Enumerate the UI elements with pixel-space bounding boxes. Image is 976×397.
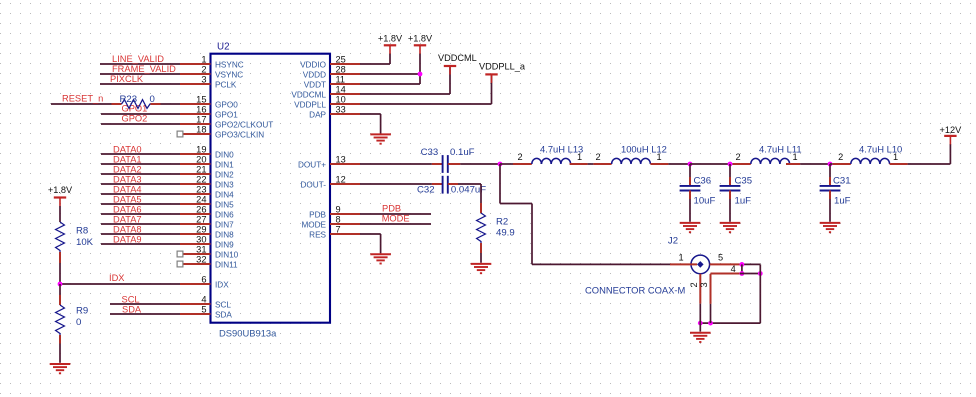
pin 33 (DAP) (309, 104, 360, 119)
svg-text:RES: RES (309, 230, 326, 239)
svg-text:1: 1 (577, 152, 582, 162)
capacitor C33 pin 1 (432, 163, 443, 165)
node C31 (828, 162, 833, 167)
power VDDCML (438, 53, 477, 75)
pin 5 (SDA) (180, 304, 232, 319)
svg-text:25: 25 (336, 54, 346, 64)
svg-text:8: 8 (336, 214, 341, 224)
svg-text:VDDCML: VDDCML (438, 53, 477, 63)
node loop corner (758, 271, 763, 276)
pin 9 (PDB) (309, 204, 360, 219)
wire jog horizontal (500, 203, 532, 205)
no-connect square pin 18 (177, 131, 183, 137)
svg-text:C36: C36 (694, 175, 712, 186)
svg-text:VDDPLL: VDDPLL (294, 100, 326, 109)
node pin5 tie (740, 262, 745, 267)
svg-text:DIN0: DIN0 (215, 150, 234, 159)
svg-text:13: 13 (336, 154, 346, 164)
svg-text:33: 33 (336, 104, 346, 114)
pin 32 (DIN11) (183, 254, 238, 269)
svg-text:10: 10 (336, 94, 346, 104)
pin 11 (VDDT) (304, 74, 360, 89)
svg-text:VSYNC: VSYNC (215, 70, 243, 79)
node IDX junction (58, 282, 63, 287)
wire net DATA1 (101, 154, 180, 164)
op-amp U1 equivalent: IC U2 DS90UB913a body (211, 42, 331, 339)
svg-text:PDB: PDB (382, 204, 401, 214)
svg-text:R9: R9 (76, 306, 88, 317)
wire VDDCML vertical (449, 66, 451, 94)
svg-text:SCL: SCL (215, 300, 231, 309)
wire net RESET_n (51, 94, 112, 105)
inductor L12 pin 1 (650, 163, 668, 165)
svg-text:+1.8V: +1.8V (408, 33, 433, 43)
wire C36 node to C35 node (690, 163, 733, 165)
wire C31 top (829, 164, 831, 177)
svg-text:C31: C31 (833, 175, 851, 186)
svg-text:30: 30 (196, 234, 206, 244)
pin 29 (DIN8) (180, 224, 234, 239)
svg-text:GPO1: GPO1 (122, 104, 148, 114)
capacitor C33 0.1uF (421, 147, 475, 173)
svg-text:GPO1: GPO1 (215, 110, 238, 119)
node VDDD/+1.8V junction (418, 72, 423, 77)
svg-text:U2: U2 (217, 42, 230, 53)
pin 14 (VDDCML) (291, 84, 360, 99)
ground (RES) (370, 254, 391, 263)
svg-text:DATA6: DATA6 (113, 204, 142, 214)
svg-text:10K: 10K (76, 237, 94, 248)
wire +12V vertical (949, 144, 951, 164)
pin 1 (HSYNC) (180, 54, 244, 69)
wire pin3 lower (710, 304, 712, 323)
power VDDPLL_a (479, 61, 526, 83)
svg-text:3: 3 (201, 74, 206, 84)
svg-text:31: 31 (196, 244, 206, 254)
ground (C36) (680, 223, 701, 232)
svg-text:17: 17 (196, 114, 206, 124)
wire VDDD to junction (360, 73, 420, 75)
wire C33 to junction (460, 163, 500, 165)
svg-text:24: 24 (196, 194, 206, 204)
connector J2 CONNECTOR COAX-M body (585, 236, 710, 296)
pin 27 (DIN7) (180, 214, 234, 229)
svg-text:GPO3/CLKIN: GPO3/CLKIN (215, 130, 264, 139)
capacitor C35 pin 2 (729, 191, 731, 200)
svg-text:DOUT+: DOUT+ (298, 160, 326, 169)
wire +1.8V to R8 (59, 206, 61, 222)
wire loop right vertical (759, 264, 761, 323)
node C35 (728, 162, 733, 167)
wire VDDIO vertical (389, 54, 391, 65)
svg-text:26: 26 (196, 204, 206, 214)
svg-text:HSYNC: HSYNC (215, 60, 244, 69)
svg-text:1: 1 (201, 54, 206, 64)
wire RES horizontal (360, 233, 381, 235)
wire L13 to L12 (588, 163, 594, 165)
no-connect square pin 31 (177, 251, 183, 257)
svg-text:+12V: +12V (940, 125, 963, 135)
svg-text:PDB: PDB (309, 210, 326, 219)
resistor R23 pin 1 (112, 103, 122, 105)
inductor L12 100uH (595, 144, 666, 165)
wire net SCL (110, 294, 180, 304)
resistor R2 pin 1 (480, 203, 482, 213)
svg-text:0.1uF: 0.1uF (450, 147, 475, 158)
wire C31 node to L10 (830, 163, 833, 165)
capacitor C31 pin 1 (829, 177, 831, 186)
svg-text:C32: C32 (417, 185, 435, 196)
svg-text:1uF: 1uF (735, 195, 752, 206)
wire net DATA0 (101, 144, 180, 154)
svg-text:DIN9: DIN9 (215, 240, 234, 249)
wire VDDCML horizontal (360, 93, 450, 95)
svg-text:SDA: SDA (215, 310, 232, 319)
pin 10 (VDDPLL) (294, 94, 360, 109)
wire net DATA6 (101, 204, 180, 214)
svg-text:DIN10: DIN10 (215, 250, 239, 259)
wire VDDT vertical (419, 54, 421, 85)
svg-text:C35: C35 (735, 175, 753, 186)
wire net MODE (360, 213, 431, 224)
wire R9 to ground (59, 344, 61, 363)
wire R23 to pin15 (161, 103, 181, 105)
wire RES vertical (380, 234, 382, 253)
wire L10 to +12V corner (908, 163, 951, 165)
pin 25 (VDDIO) (300, 54, 360, 69)
wire DAP horizontal (360, 113, 381, 115)
connector J2 pin 3 number (699, 282, 709, 287)
resistor R9 0 ohm (56, 305, 89, 335)
wire junction to R9 (59, 284, 61, 295)
svg-text:DATA8: DATA8 (113, 224, 142, 234)
svg-text:SDA: SDA (122, 304, 142, 314)
svg-text:1uF: 1uF (834, 195, 851, 206)
inductor L13 pin 1 (570, 163, 588, 165)
pin 7 (RES) (309, 224, 360, 239)
connector J2 pin 2 (699, 274, 701, 304)
svg-text:DATA9: DATA9 (113, 234, 142, 244)
connector J2 pin 2 number (689, 282, 699, 287)
svg-text:2: 2 (201, 64, 206, 74)
inductor L10 4.7uH (838, 144, 902, 165)
svg-text:IDX: IDX (109, 273, 125, 283)
pin 31 (DIN10) (183, 244, 239, 259)
wire junction to L13 (500, 163, 513, 165)
resistor R23 (0 ohm) (120, 94, 155, 108)
svg-text:FRAME_VALID: FRAME_VALID (112, 64, 176, 74)
svg-text:GPO2/CLKOUT: GPO2/CLKOUT (215, 120, 273, 129)
svg-text:9: 9 (336, 204, 341, 214)
wire net IDX (60, 273, 180, 284)
pin 2 (VSYNC) (180, 64, 243, 79)
no-connect square pin 32 (177, 261, 183, 267)
pin 21 (DIN2) (180, 164, 234, 179)
pin 8 (MODE) (301, 214, 360, 229)
resistor R23 pin 2 (151, 103, 161, 105)
wire DOUT+ to C33 (360, 163, 432, 165)
svg-text:19: 19 (196, 144, 206, 154)
svg-text:49.9: 49.9 (496, 228, 515, 239)
svg-text:21: 21 (196, 164, 206, 174)
svg-text:RESET_n: RESET_n (62, 94, 103, 104)
connector J2 pin 3 (710, 274, 712, 304)
wire R2 to ground (480, 253, 482, 263)
svg-text:+1.8V: +1.8V (378, 33, 403, 43)
connector J2 pin 4 (711, 273, 741, 275)
ground (DAP) (370, 134, 391, 143)
wire VDDPLL horizontal (360, 103, 492, 105)
inductor L11 pin 2 (733, 163, 751, 165)
pin 20 (DIN1) (180, 154, 234, 169)
svg-text:20: 20 (196, 154, 206, 164)
svg-text:2: 2 (735, 152, 740, 162)
pin 22 (DIN3) (180, 174, 234, 189)
wire net FRAME_VALID (100, 64, 180, 74)
svg-text:DATA5: DATA5 (113, 194, 142, 204)
svg-text:IDX: IDX (215, 280, 229, 289)
wire net DATA5 (101, 194, 180, 204)
svg-text:LINE_VALID: LINE_VALID (112, 54, 164, 64)
power +1.8V (VDDIO) (378, 33, 403, 53)
svg-text:6: 6 (201, 274, 206, 284)
wire net DATA9 (101, 234, 180, 244)
capacitor C36 pin 2 (689, 191, 691, 200)
wire net GPO1 (101, 104, 180, 115)
wire net LINE_VALID (100, 54, 180, 64)
wire net DATA2 (101, 164, 180, 174)
wire pin2 lower (699, 304, 701, 332)
svg-text:DIN11: DIN11 (215, 260, 238, 269)
pin 24 (DIN5) (180, 194, 234, 209)
svg-text:32: 32 (196, 254, 206, 264)
resistor R2 49.9 (477, 213, 515, 243)
svg-text:MODE: MODE (301, 220, 326, 229)
wire pin4 to corner (740, 273, 760, 275)
wire DOUT- to C32 (360, 183, 432, 185)
pin 30 (DIN9) (180, 234, 234, 249)
svg-text:DIN8: DIN8 (215, 230, 234, 239)
svg-text:DATA2: DATA2 (113, 164, 142, 174)
capacitor C31 pin 2 (829, 191, 831, 200)
svg-text:R2: R2 (496, 216, 508, 227)
svg-text:1: 1 (656, 152, 661, 162)
capacitor C32 pin 1 (432, 183, 443, 185)
ground (below R9) (50, 364, 71, 373)
resistor R2 pin 2 (480, 243, 482, 253)
power +1.8V (left) (48, 185, 73, 206)
svg-text:PCLK: PCLK (215, 80, 237, 89)
svg-text:12: 12 (336, 174, 346, 184)
pin 4 (SCL) (180, 294, 231, 309)
svg-text:15: 15 (196, 94, 206, 104)
svg-text:SCL: SCL (122, 294, 140, 304)
svg-text:DIN6: DIN6 (215, 210, 234, 219)
svg-text:22: 22 (196, 174, 206, 184)
pin 6 (IDX) (180, 274, 229, 289)
inductor L10 pin 1 (890, 163, 908, 165)
wire VDDT horizontal (360, 83, 420, 85)
connector J2 pin 1 number (678, 253, 683, 263)
connector J2 pin 1 (670, 263, 697, 265)
svg-text:5: 5 (718, 253, 723, 263)
connector J2 pin 5 number (718, 253, 723, 263)
svg-text:VDDD: VDDD (303, 70, 326, 79)
resistor R9 pin 2 (59, 335, 61, 344)
svg-text:5: 5 (201, 304, 206, 314)
inductor L12 pin 2 (593, 163, 611, 165)
svg-text:4: 4 (731, 264, 736, 274)
svg-text:4: 4 (201, 294, 206, 304)
svg-text:R8: R8 (76, 226, 88, 237)
wire net PIXCLK (100, 74, 180, 84)
pin 16 (GPO1) (180, 104, 238, 119)
resistor R8 pin 2 (59, 252, 61, 263)
svg-text:7: 7 (336, 224, 341, 234)
svg-text:DAP: DAP (309, 110, 326, 119)
svg-text:14: 14 (336, 84, 346, 94)
inductor L11 4.7uH (735, 144, 801, 165)
capacitor C33 pin 2 (448, 163, 461, 165)
wire net DATA7 (101, 214, 180, 224)
wire to coax pin 1 (532, 263, 670, 265)
pin 15 (GPO0) (180, 94, 238, 109)
node pin3 bottom tie (708, 321, 713, 326)
capacitor C32 pin 2 (448, 183, 458, 185)
svg-text:16: 16 (196, 104, 206, 114)
wire net DATA3 (101, 174, 180, 184)
svg-text:DIN1: DIN1 (215, 160, 234, 169)
wire DAP vertical (380, 114, 382, 134)
pin 23 (DIN4) (180, 184, 234, 199)
power +12V (940, 125, 963, 145)
svg-text:0: 0 (76, 317, 81, 328)
capacitor C36 pin 1 (689, 177, 691, 186)
svg-text:2: 2 (689, 282, 699, 287)
svg-text:DIN7: DIN7 (215, 220, 234, 229)
svg-text:C33: C33 (421, 147, 439, 158)
svg-text:2: 2 (517, 152, 522, 162)
connector J2 pin 5 (710, 263, 740, 265)
wire net GPO2 (101, 114, 180, 125)
svg-text:VDDT: VDDT (304, 80, 326, 89)
svg-text:GPO0: GPO0 (215, 100, 238, 109)
svg-text:28: 28 (336, 64, 346, 74)
node pin2 bottom tie (698, 321, 703, 326)
wire pin5 to corner (740, 263, 761, 265)
wire R8 to IDX junction (59, 263, 61, 284)
wire C32 output (458, 183, 481, 185)
wire C36 to ground (689, 199, 691, 222)
wire net PDB (360, 204, 431, 215)
svg-text:1: 1 (792, 152, 797, 162)
wire VDDIO horizontal (360, 63, 390, 65)
connector J2 pin 4 number (731, 264, 736, 274)
svg-text:VDDPLL_a: VDDPLL_a (479, 61, 526, 71)
wire L12 to C36 node (668, 163, 690, 165)
capacitor C31 1uF (820, 175, 851, 206)
svg-text:2: 2 (838, 152, 843, 162)
power +1.8V (VDDD/VDDT) (408, 33, 433, 53)
svg-text:J2: J2 (668, 236, 678, 247)
pin 28 (VDDD) (303, 64, 360, 79)
svg-text:DIN5: DIN5 (215, 200, 234, 209)
capacitor C36 10uF (680, 175, 716, 206)
pin 19 (DIN0) (180, 144, 234, 159)
svg-text:18: 18 (196, 124, 206, 134)
wire VDDPLL vertical (491, 74, 493, 104)
svg-text:DATA4: DATA4 (113, 184, 142, 194)
svg-text:10uF: 10uF (694, 195, 716, 206)
wire C36 top (689, 164, 691, 177)
node C36 (688, 162, 693, 167)
svg-text:DIN3: DIN3 (215, 180, 234, 189)
wire loop bottom (700, 322, 760, 324)
wire L11 to C31 node (800, 163, 830, 165)
inductor L13 pin 2 (513, 163, 532, 165)
svg-text:29: 29 (196, 224, 206, 234)
svg-text:R23: R23 (120, 94, 138, 105)
svg-text:11: 11 (336, 74, 346, 84)
svg-text:DOUT-: DOUT- (301, 180, 327, 189)
svg-text:DS90UB913a: DS90UB913a (219, 327, 277, 338)
node pin4 tie (740, 271, 745, 276)
svg-text:DIN2: DIN2 (215, 170, 234, 179)
svg-text:GPO2: GPO2 (122, 114, 148, 124)
svg-text:DATA0: DATA0 (113, 144, 142, 154)
ground (J2) (690, 333, 711, 342)
svg-text:3: 3 (699, 282, 709, 287)
svg-text:VDDIO: VDDIO (300, 60, 326, 69)
pin 18 (GPO3/CLKIN) (183, 124, 264, 139)
pin 26 (DIN6) (180, 204, 234, 219)
wire C35 to ground (729, 199, 731, 222)
ground (C31) (820, 223, 841, 232)
wire C31 to ground (829, 199, 831, 222)
node power-over-coax junction (498, 162, 503, 167)
wire pin5 tie down (741, 264, 743, 273)
svg-text:27: 27 (196, 214, 206, 224)
svg-text:DATA1: DATA1 (113, 154, 142, 164)
resistor R8 10K (56, 222, 94, 252)
svg-text:2: 2 (595, 152, 600, 162)
wire C35 top (729, 164, 731, 177)
inductor L10 pin 2 (833, 163, 851, 165)
wire net SDA (110, 304, 180, 314)
svg-text:CONNECTOR COAX-M: CONNECTOR COAX-M (585, 285, 686, 296)
svg-text:PIXCLK: PIXCLK (110, 74, 144, 84)
pin 13 (DOUT+) (298, 154, 360, 169)
inductor L13 4.7uH (517, 144, 583, 165)
resistor R9 pin 1 (59, 295, 61, 305)
svg-text:DATA3: DATA3 (113, 174, 142, 184)
ground (C35) (720, 223, 741, 232)
pin 17 (GPO2/CLKOUT) (180, 114, 273, 129)
svg-text:+1.8V: +1.8V (48, 185, 73, 195)
ground (R2) (471, 264, 492, 273)
svg-text:1: 1 (893, 152, 898, 162)
pin 3 (PCLK) (180, 74, 237, 89)
pin 12 (DOUT-) (301, 174, 360, 189)
capacitor C35 1uF (720, 175, 753, 206)
wire jog down (531, 204, 533, 265)
wire junction down (499, 164, 501, 204)
wire net DATA8 (101, 224, 180, 234)
capacitor C32 0.047uF (417, 176, 486, 196)
inductor L11 pin 1 (786, 163, 800, 165)
svg-text:23: 23 (196, 184, 206, 194)
svg-text:1: 1 (678, 253, 683, 263)
